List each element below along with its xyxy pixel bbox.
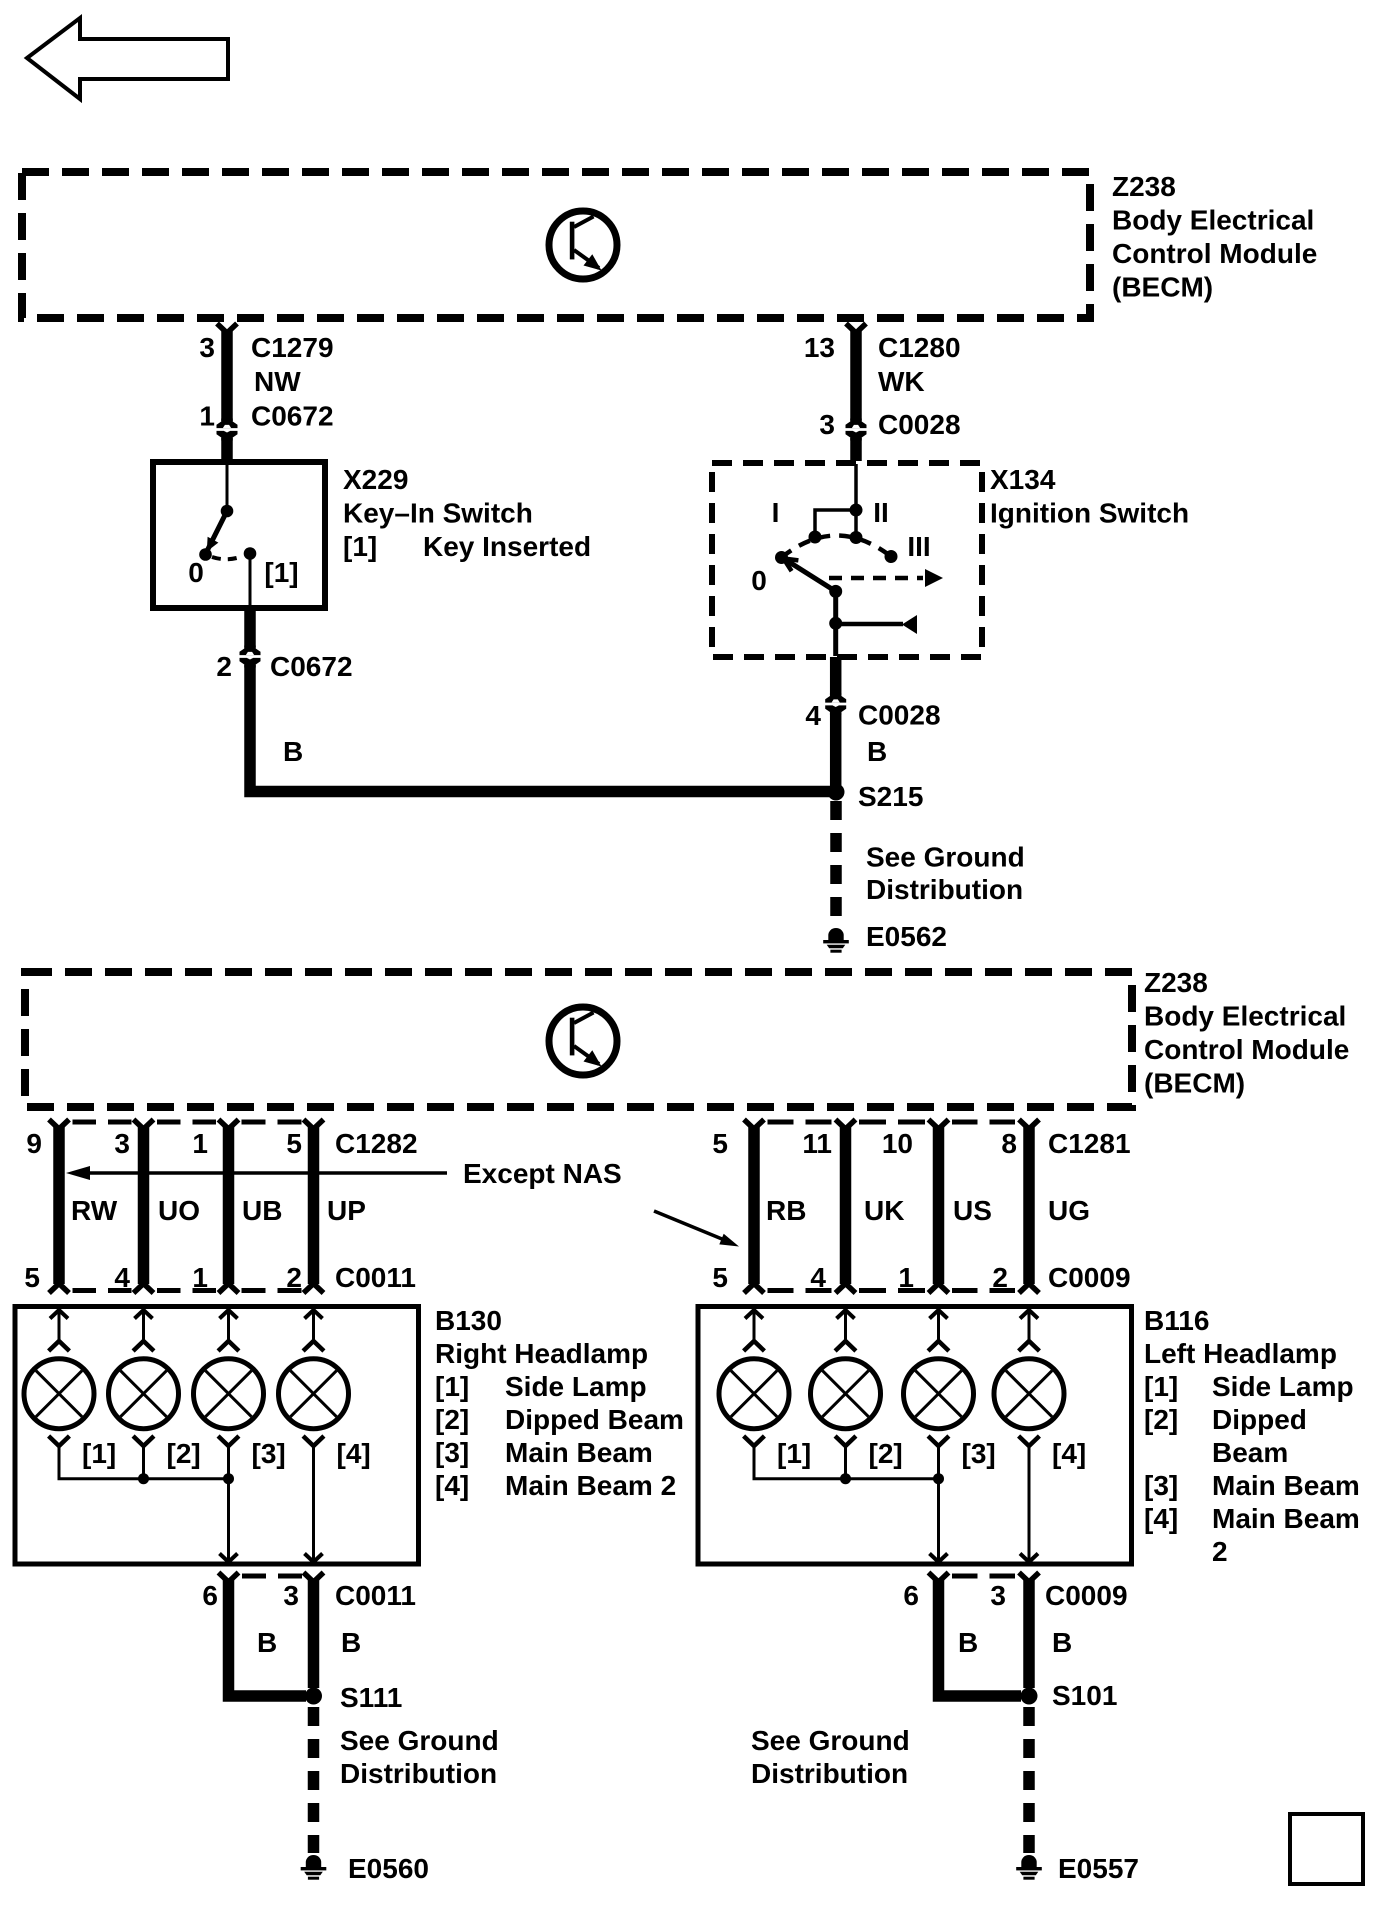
svg-text:C0672: C0672 xyxy=(270,651,353,682)
X134 internal: lever open arrowhead xyxy=(784,559,799,572)
node S101 dot xyxy=(1021,1688,1038,1705)
svg-text:UK: UK xyxy=(864,1195,904,1226)
BECM module box Z238 (lower) xyxy=(25,972,1132,1107)
B116 junction dot (lamp3) xyxy=(933,1473,944,1484)
Except NAS arrowhead xyxy=(66,1166,90,1180)
Except NAS pointer arrow (diagonal) xyxy=(654,1211,722,1239)
wire RW pin 9 xyxy=(49,1120,69,1294)
svg-text:[3]: [3] xyxy=(252,1438,286,1469)
svg-text:I: I xyxy=(772,497,780,528)
svg-text:Side Lamp: Side Lamp xyxy=(505,1371,647,1402)
svg-text:X134: X134 xyxy=(990,464,1056,495)
svg-text:C0009: C0009 xyxy=(1048,1262,1131,1293)
svg-text:[4]: [4] xyxy=(1052,1438,1086,1469)
X134 internal: feed wire xyxy=(854,464,858,510)
X134 internal: lever xyxy=(786,560,836,591)
svg-text:3: 3 xyxy=(283,1580,299,1611)
svg-text:Key Inserted: Key Inserted xyxy=(423,531,591,562)
X229 internal: pivot dot xyxy=(221,505,234,518)
X229 internal: switch lever xyxy=(207,511,227,551)
X134 internal: dashed travel arrow xyxy=(829,576,923,581)
X134 internal: lower dot xyxy=(829,617,842,630)
svg-text:S215: S215 xyxy=(858,781,923,812)
svg-text:B: B xyxy=(867,736,887,767)
note See Ground Distribution (S111) xyxy=(340,1725,499,1789)
X229 internal: contact [1] dot xyxy=(244,547,257,560)
X134 internal: feed dot xyxy=(850,504,863,517)
svg-text:[3]: [3] xyxy=(435,1437,469,1468)
X134 internal: dashed contact arc xyxy=(782,535,892,557)
svg-text:C1279: C1279 xyxy=(251,332,334,363)
B116 lamp [3] main beam xyxy=(904,1359,974,1429)
svg-text:[1]: [1] xyxy=(777,1438,811,1469)
svg-text:B: B xyxy=(283,736,303,767)
ground distribution dashed wire (S101) xyxy=(1023,1707,1035,1853)
note See Ground Distribution (S101) xyxy=(751,1725,910,1789)
svg-text:Z238: Z238 xyxy=(1144,967,1208,998)
B116 lamp feed 3 xyxy=(928,1309,949,1351)
X229 internal: contact 0 dot xyxy=(199,548,212,561)
label Z238 BECM (lower) xyxy=(1144,967,1349,1099)
svg-text:10: 10 xyxy=(882,1128,913,1159)
connector C1282 dashed line xyxy=(70,1120,304,1125)
svg-text:(BECM): (BECM) xyxy=(1144,1068,1245,1099)
svg-text:Key–In Switch: Key–In Switch xyxy=(343,498,533,529)
X229 internal: feed wire xyxy=(226,463,229,511)
svg-text:0: 0 xyxy=(751,565,767,596)
label X134 Ignition Switch xyxy=(990,464,1189,529)
pin labels C1282 row xyxy=(26,1128,417,1159)
svg-text:C0028: C0028 xyxy=(858,700,941,731)
transistor symbol U2 (inside BECM lower) xyxy=(549,1007,617,1075)
svg-text:See Ground: See Ground xyxy=(866,842,1025,873)
svg-text:8: 8 xyxy=(1001,1128,1017,1159)
svg-text:3: 3 xyxy=(990,1580,1006,1611)
wire B from B116 pin 3 to S101 xyxy=(1019,1573,1039,1689)
diagonal arrowhead xyxy=(719,1234,739,1247)
svg-text:NW: NW xyxy=(254,366,301,397)
wire RB pin 5 xyxy=(744,1120,764,1294)
svg-text:13: 13 xyxy=(804,332,835,363)
svg-text:Ignition Switch: Ignition Switch xyxy=(990,498,1189,529)
connector C0011 dashed line (bottom) xyxy=(239,1574,303,1579)
svg-text:B: B xyxy=(257,1627,277,1658)
B116 filament labels xyxy=(777,1438,1086,1469)
connector C1281 dashed line xyxy=(765,1120,1019,1125)
svg-text:Z238: Z238 xyxy=(1112,171,1176,202)
svg-text:See Ground: See Ground xyxy=(751,1725,910,1756)
B116 exit arrowheads xyxy=(930,1554,1039,1563)
svg-text:[1]: [1] xyxy=(1144,1371,1178,1402)
wire UB pin 1 xyxy=(219,1120,239,1294)
label X229 Key-In Switch xyxy=(343,464,591,562)
svg-text:5: 5 xyxy=(24,1262,40,1293)
svg-text:C1282: C1282 xyxy=(335,1128,418,1159)
B116 lamp [4] main beam 2 xyxy=(994,1359,1064,1429)
svg-text:B116: B116 xyxy=(1144,1305,1209,1336)
svg-text:[3]: [3] xyxy=(962,1438,996,1469)
svg-text:[1]: [1] xyxy=(82,1438,116,1469)
label Z238 BECM (top) xyxy=(1112,171,1317,303)
X134 internal: park contact lead xyxy=(836,622,903,627)
svg-text:1: 1 xyxy=(192,1262,208,1293)
wire US pin 10 xyxy=(929,1120,949,1294)
svg-text:[4]: [4] xyxy=(1144,1503,1178,1534)
svg-text:Beam: Beam xyxy=(1212,1437,1288,1468)
X134 internal: branch to contact II xyxy=(854,510,858,537)
svg-text:Except NAS: Except NAS xyxy=(463,1158,622,1189)
svg-text:[3]: [3] xyxy=(1144,1470,1178,1501)
X134 internal: contact I dot xyxy=(809,531,822,544)
wire UG pin 8 xyxy=(1019,1120,1039,1294)
X134 internal: park contact triangle xyxy=(902,615,917,634)
B130 lamp [2] dipped beam xyxy=(109,1359,179,1429)
B116 lamp feed 4 xyxy=(1019,1309,1040,1351)
left headlamp B116 box xyxy=(698,1307,1132,1565)
svg-text:3: 3 xyxy=(199,332,215,363)
wire labels RW UO UB UP xyxy=(71,1195,366,1226)
svg-text:UO: UO xyxy=(158,1195,200,1226)
svg-text:B: B xyxy=(1052,1627,1072,1658)
connector C0028 pin 4 (inline) xyxy=(825,693,846,715)
svg-text:4: 4 xyxy=(805,700,821,731)
svg-text:Side Lamp: Side Lamp xyxy=(1212,1371,1354,1402)
svg-text:Main Beam: Main Beam xyxy=(1212,1503,1360,1534)
svg-text:Dipped: Dipped xyxy=(1212,1404,1307,1435)
wire UO pin 3 xyxy=(134,1120,154,1294)
svg-text:[1]: [1] xyxy=(435,1371,469,1402)
key-in switch X229 box xyxy=(153,462,325,608)
svg-text:2: 2 xyxy=(216,651,232,682)
svg-text:[4]: [4] xyxy=(337,1438,371,1469)
svg-text:2: 2 xyxy=(1212,1536,1228,1567)
pin labels C0009 row (top) xyxy=(712,1262,1130,1293)
svg-text:Distribution: Distribution xyxy=(340,1758,497,1789)
ground E0562 xyxy=(823,928,849,953)
label B130 Right Headlamp xyxy=(435,1305,684,1501)
svg-text:[2]: [2] xyxy=(435,1404,469,1435)
svg-text:[1]: [1] xyxy=(343,531,377,562)
svg-text:(BECM): (BECM) xyxy=(1112,272,1213,303)
wire B from B130 pin 3 to S111 xyxy=(304,1573,324,1689)
ground distribution dashed wire (S215) xyxy=(830,801,842,924)
svg-text:C1281: C1281 xyxy=(1048,1128,1131,1159)
wire WK from BECM pin 13 C1280 xyxy=(846,324,866,462)
svg-text:[1]: [1] xyxy=(264,557,298,588)
X134 internal: lower link xyxy=(833,591,838,623)
svg-text:[2]: [2] xyxy=(869,1438,903,1469)
X229 internal: dashed travel arc xyxy=(212,556,243,559)
B116 junction dot (lamp2) xyxy=(840,1473,851,1484)
B116 lamp [1] side lamp xyxy=(719,1359,789,1429)
B130 junction dot (lamp3) xyxy=(223,1473,234,1484)
svg-text:C0009: C0009 xyxy=(1045,1580,1128,1611)
svg-text:See Ground: See Ground xyxy=(340,1725,499,1756)
svg-text:Body Electrical: Body Electrical xyxy=(1112,205,1314,236)
connector C0011 dashed line (top) xyxy=(70,1288,304,1293)
svg-text:[4]: [4] xyxy=(435,1470,469,1501)
B130 lamp return bus xyxy=(49,1436,324,1560)
wire B from B116 pin 6 xyxy=(929,1573,1022,1697)
wire B from X229 pin 2 to node S215 xyxy=(250,608,831,792)
label B116 Left Headlamp xyxy=(1144,1305,1360,1567)
svg-text:Dipped Beam: Dipped Beam xyxy=(505,1404,684,1435)
svg-text:5: 5 xyxy=(712,1262,728,1293)
svg-text:C0672: C0672 xyxy=(251,401,334,432)
B130 lamp feed 4 xyxy=(303,1309,324,1351)
svg-text:4: 4 xyxy=(114,1262,130,1293)
B130 junction dot (lamp2) xyxy=(138,1473,149,1484)
svg-text:Main Beam: Main Beam xyxy=(505,1437,653,1468)
svg-text:C0011: C0011 xyxy=(335,1262,416,1293)
B130 lamp feed 1 xyxy=(49,1309,70,1351)
svg-text:S101: S101 xyxy=(1052,1680,1117,1711)
B130 lamp feed 3 xyxy=(218,1309,239,1351)
connector C0672 pin 2 (inline) xyxy=(240,646,261,668)
svg-text:Right Headlamp: Right Headlamp xyxy=(435,1338,648,1369)
svg-text:Left Headlamp: Left Headlamp xyxy=(1144,1338,1337,1369)
node S111 dot xyxy=(305,1688,322,1705)
svg-text:RB: RB xyxy=(766,1195,806,1226)
svg-text:E0562: E0562 xyxy=(866,921,947,952)
X229 internal: lever arrowhead xyxy=(207,537,219,552)
svg-text:Main Beam: Main Beam xyxy=(1212,1470,1360,1501)
svg-text:1: 1 xyxy=(192,1128,208,1159)
transistor symbol U1 (inside BECM top) xyxy=(549,211,617,279)
B130 lamp [4] main beam 2 xyxy=(279,1359,349,1429)
svg-text:Control Module: Control Module xyxy=(1144,1034,1349,1065)
B116 lamp return bus xyxy=(744,1436,1040,1560)
B116 lamp [2] dipped beam xyxy=(811,1359,881,1429)
svg-text:C0028: C0028 xyxy=(878,409,961,440)
wire NW from BECM pin 3 C1279 xyxy=(217,324,237,461)
page marker square xyxy=(1290,1814,1363,1884)
svg-text:C1280: C1280 xyxy=(878,332,961,363)
B130 lamp [3] main beam xyxy=(194,1359,264,1429)
wire B from B130 pin 6 xyxy=(219,1573,307,1697)
B130 lamp feed 2 xyxy=(133,1309,154,1351)
X134 internal: branch to contact I xyxy=(815,510,856,537)
svg-text:B: B xyxy=(958,1627,978,1658)
connector C0028 pin 3 (inline) xyxy=(846,419,867,441)
svg-text:5: 5 xyxy=(712,1128,728,1159)
svg-text:0: 0 xyxy=(188,557,204,588)
svg-text:UP: UP xyxy=(327,1195,366,1226)
svg-text:E0560: E0560 xyxy=(348,1853,429,1884)
svg-text:II: II xyxy=(873,497,889,528)
svg-text:RW: RW xyxy=(71,1195,118,1226)
node S215 dot xyxy=(828,784,845,801)
B130 filament labels xyxy=(82,1438,371,1469)
svg-text:6: 6 xyxy=(903,1580,919,1611)
svg-text:[2]: [2] xyxy=(167,1438,201,1469)
wire labels RB UK US UG xyxy=(766,1195,1090,1226)
svg-text:B130: B130 xyxy=(435,1305,502,1336)
svg-text:E0557: E0557 xyxy=(1058,1853,1139,1884)
wire B from X134 pin 4 to node S215 xyxy=(830,657,842,787)
svg-text:B: B xyxy=(341,1627,361,1658)
ground E0557 xyxy=(1016,1855,1042,1880)
svg-text:Distribution: Distribution xyxy=(866,874,1023,905)
svg-text:S111: S111 xyxy=(340,1682,402,1713)
svg-text:2: 2 xyxy=(992,1262,1008,1293)
svg-text:X229: X229 xyxy=(343,464,408,495)
svg-text:Body Electrical: Body Electrical xyxy=(1144,1001,1346,1032)
B130 exit arrowheads xyxy=(220,1554,323,1563)
svg-text:Control Module: Control Module xyxy=(1112,238,1317,269)
pin labels C0011 row (top) xyxy=(24,1262,416,1293)
svg-text:Distribution: Distribution xyxy=(751,1758,908,1789)
svg-text:3: 3 xyxy=(114,1128,130,1159)
X134 internal: pivot dot xyxy=(829,585,842,598)
pin labels C1281 row xyxy=(712,1128,1130,1159)
ground E0560 xyxy=(301,1855,327,1880)
connector C0009 dashed line (bottom) xyxy=(949,1574,1019,1579)
ground distribution dashed wire (S111) xyxy=(308,1707,320,1853)
connector C0009 dashed line (top) xyxy=(765,1288,1019,1293)
svg-text:2: 2 xyxy=(286,1262,302,1293)
svg-text:6: 6 xyxy=(202,1580,218,1611)
svg-text:3: 3 xyxy=(819,409,835,440)
svg-text:WK: WK xyxy=(878,366,925,397)
X134 internal: contact 0 dot xyxy=(775,551,788,564)
svg-text:III: III xyxy=(907,531,930,562)
svg-text:UB: UB xyxy=(242,1195,282,1226)
svg-text:11: 11 xyxy=(802,1128,832,1159)
BECM module box Z238 (top) xyxy=(22,172,1090,318)
svg-text:US: US xyxy=(953,1195,992,1226)
svg-text:[2]: [2] xyxy=(1144,1404,1178,1435)
svg-text:5: 5 xyxy=(286,1128,302,1159)
svg-text:4: 4 xyxy=(810,1262,826,1293)
X134 internal: contact III dot xyxy=(885,550,898,563)
right headlamp B130 box xyxy=(15,1307,419,1565)
svg-text:9: 9 xyxy=(26,1128,42,1159)
X134 internal: output lead xyxy=(833,624,838,656)
svg-text:UG: UG xyxy=(1048,1195,1090,1226)
X134 internal: travel arrowhead xyxy=(925,569,943,587)
wire UP pin 5 xyxy=(304,1120,324,1294)
X134 internal: contact II dot xyxy=(850,531,863,544)
B130 lamp [1] side lamp xyxy=(24,1359,94,1429)
note See Ground Distribution (S215) xyxy=(866,842,1025,906)
B116 lamp feed 1 xyxy=(744,1309,765,1351)
navigation arrow (page back) xyxy=(27,18,228,99)
X229 internal: output lead xyxy=(249,554,252,608)
svg-text:Main Beam 2: Main Beam 2 xyxy=(505,1470,676,1501)
svg-text:1: 1 xyxy=(898,1262,914,1293)
ignition switch X134 box xyxy=(712,463,982,657)
B116 lamp feed 2 xyxy=(835,1309,856,1351)
svg-text:C0011: C0011 xyxy=(335,1580,416,1611)
connector C0672 pin 1 (inline) xyxy=(217,419,238,441)
wire UK pin 11 xyxy=(836,1120,856,1294)
svg-text:1: 1 xyxy=(199,401,215,432)
Except NAS pointer arrow (horizontal) xyxy=(88,1171,447,1175)
